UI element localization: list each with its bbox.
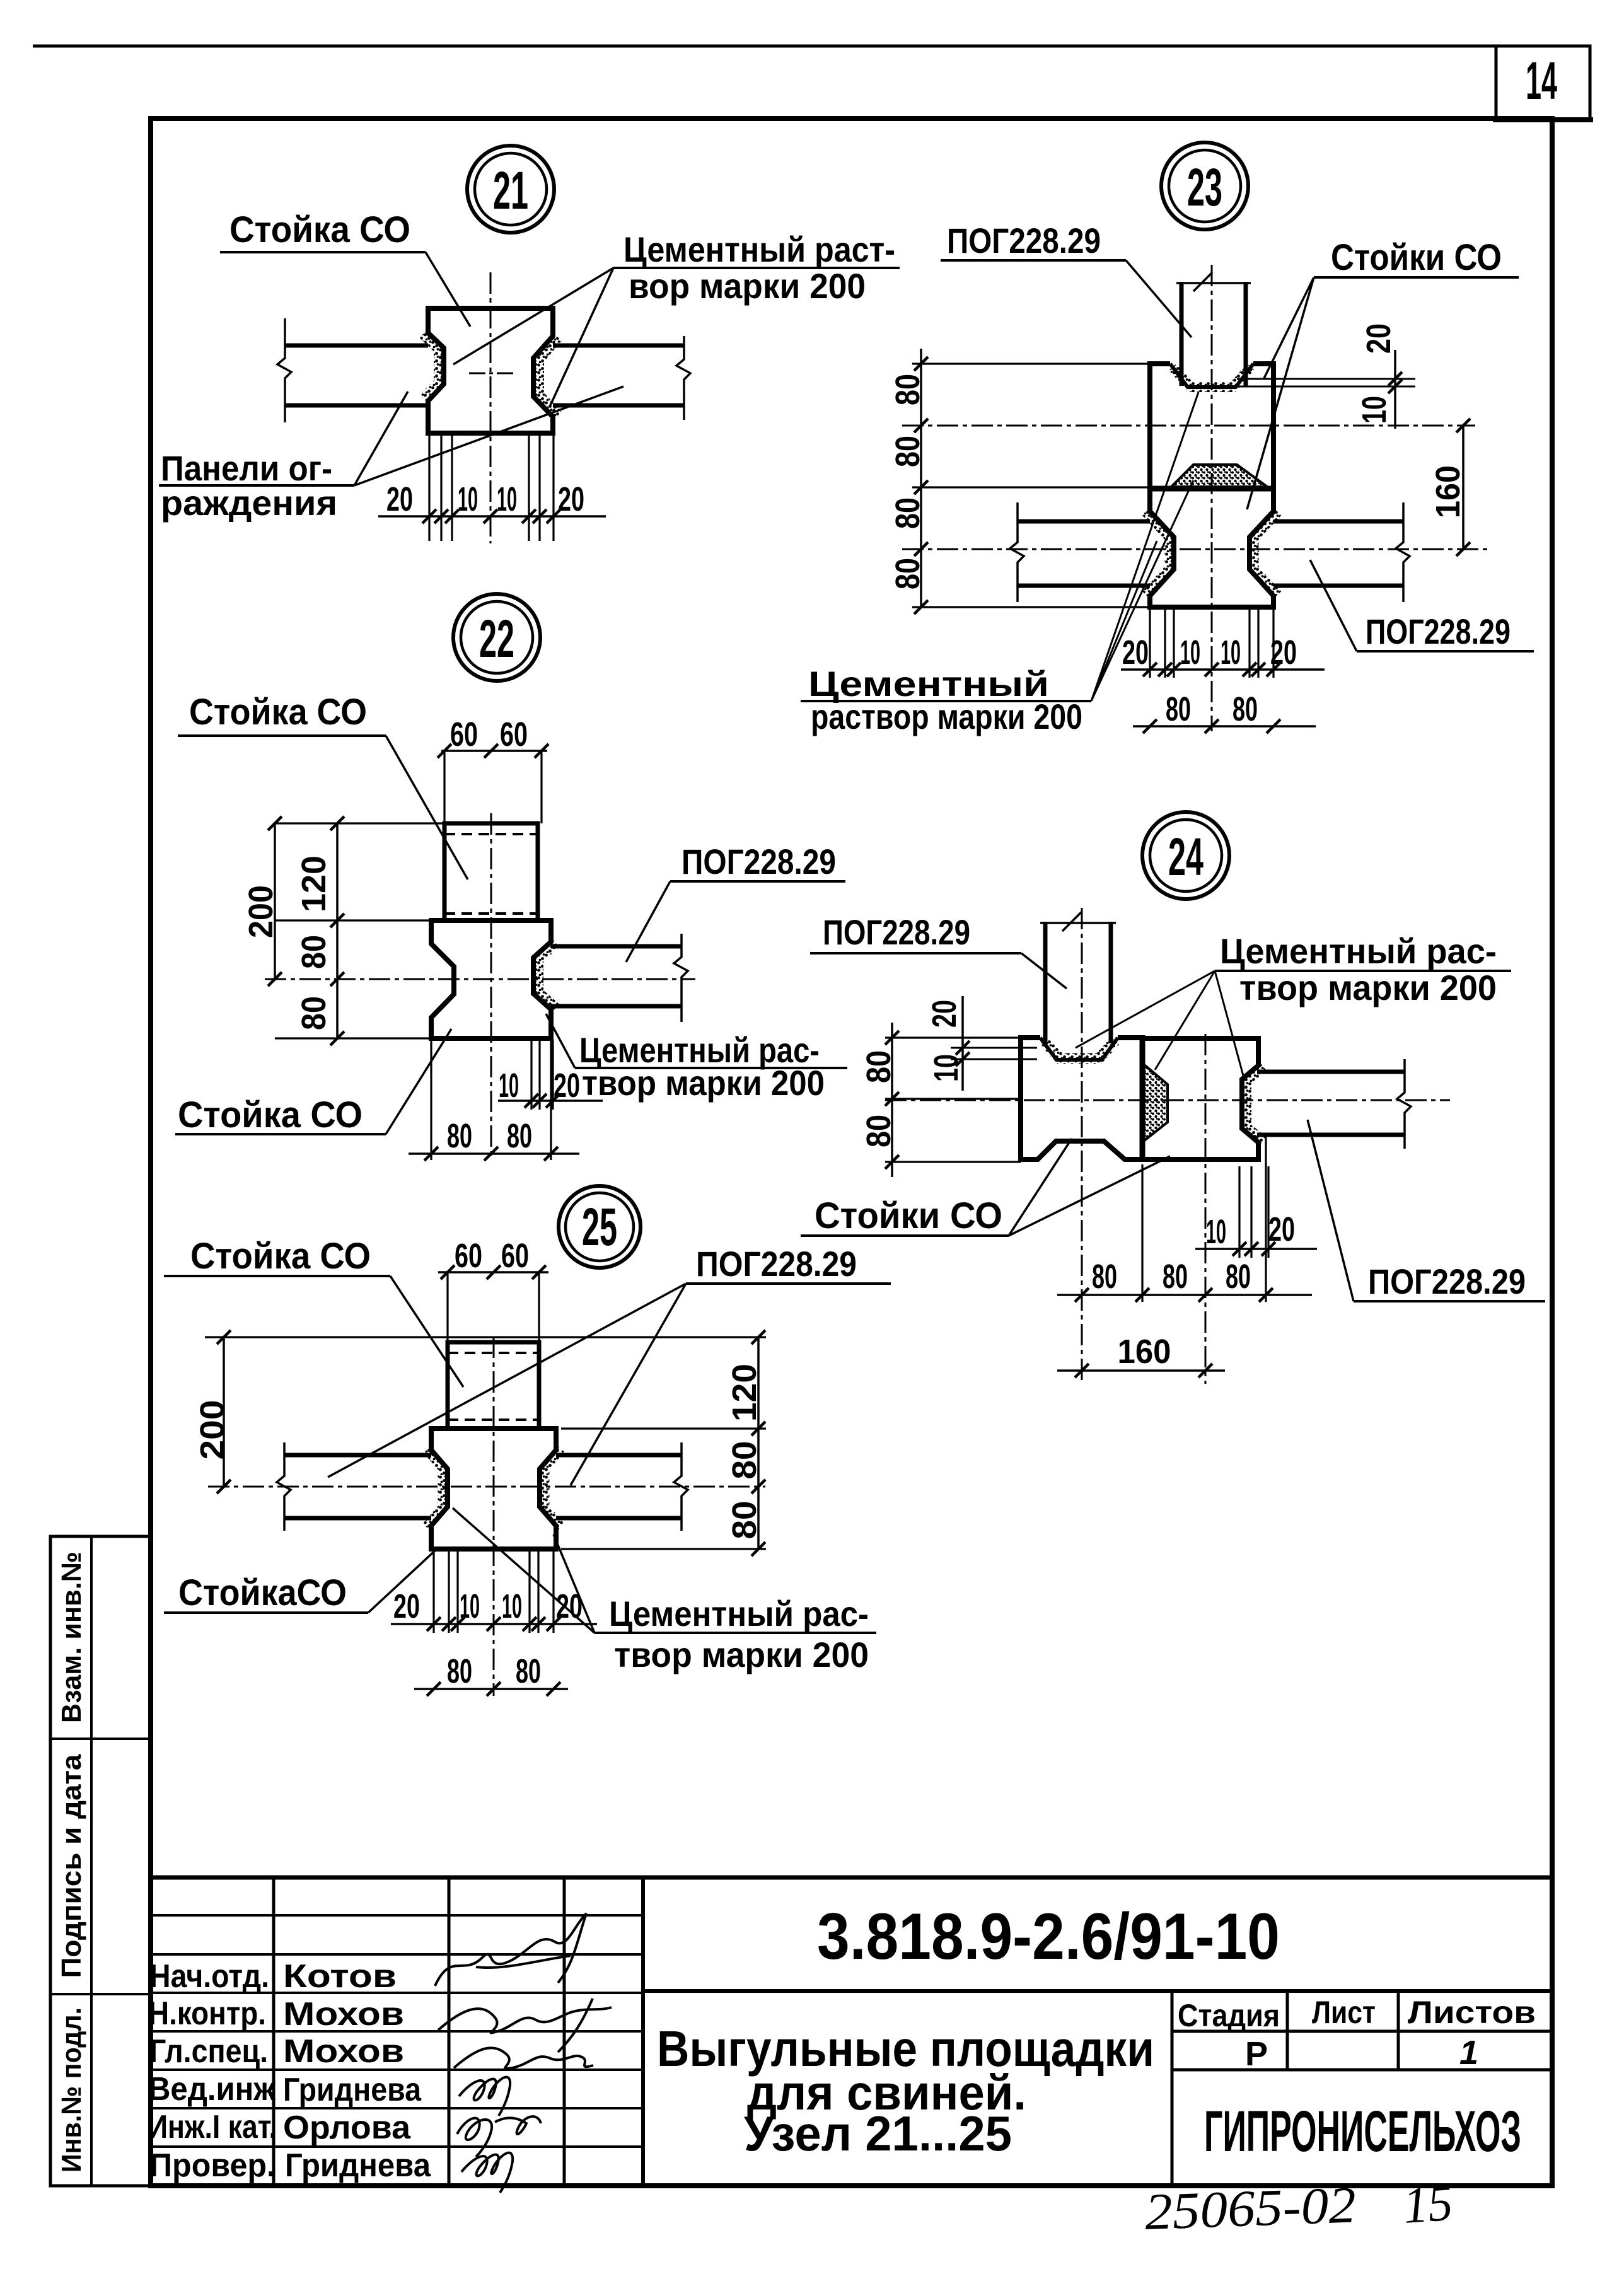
shared top extension line	[205, 1336, 766, 1338]
left dim 80 80	[885, 1038, 1021, 1162]
svg-text:раждения: раждения	[161, 483, 337, 523]
svg-text:Н.контр.: Н.контр.	[148, 1995, 266, 2032]
upper post (стойка)	[444, 823, 538, 919]
svg-text:200: 200	[194, 1400, 231, 1460]
mortar band left	[426, 1449, 443, 1527]
svg-text:160: 160	[1429, 465, 1467, 518]
signature Мохов 2	[454, 2048, 593, 2068]
fence panel right	[553, 344, 684, 348]
svg-text:Листов: Листов	[1408, 1995, 1536, 2030]
mortar band right (cement joint)	[539, 337, 558, 415]
break mark left panel	[1010, 502, 1024, 602]
svg-text:25: 25	[582, 1197, 617, 1256]
lower collar (стойка)	[1150, 489, 1273, 607]
svg-text:Нач.отд.: Нач.отд.	[149, 1958, 269, 1995]
svg-text:Инв.№ подл.: Инв.№ подл.	[56, 2007, 87, 2173]
SECTION:D23	[801, 142, 1534, 736]
svg-text:10: 10	[460, 1587, 480, 1625]
bottom dims 20 10 10 20	[434, 1551, 554, 1633]
svg-text:вор марки 200: вор марки 200	[629, 266, 866, 306]
svg-text:10: 10	[1221, 634, 1241, 671]
svg-text:80: 80	[1226, 1258, 1251, 1296]
main drawing frame	[151, 119, 1552, 2186]
bottom dims 80 80 80	[1142, 1137, 1266, 1302]
svg-text:24: 24	[1168, 827, 1203, 886]
right cells	[1172, 1991, 1398, 2186]
centerline horizontal	[208, 1486, 765, 1488]
break mark right panel	[676, 336, 690, 420]
detail bubble 25	[559, 1186, 641, 1268]
centerline horizontal lower	[902, 548, 1489, 550]
svg-text:120: 120	[726, 1364, 763, 1422]
svg-text:10: 10	[502, 1587, 522, 1625]
svg-text:3.818.9-2.6/91-10: 3.818.9-2.6/91-10	[817, 1900, 1280, 1973]
SECTION:D24	[801, 812, 1545, 1384]
mortar band lower-right	[1254, 512, 1278, 595]
mortar band right notch	[1246, 1067, 1263, 1141]
dimension ticks	[422, 509, 560, 523]
svg-text:60: 60	[500, 716, 528, 753]
bottom dim 160	[1057, 1369, 1225, 1372]
svg-text:Цементный раст-: Цементный раст-	[623, 229, 895, 269]
SECTION:D21	[159, 146, 900, 543]
fence panel left	[1018, 519, 1150, 524]
svg-text:80: 80	[726, 1441, 763, 1480]
thick joint line	[1147, 486, 1276, 492]
collar outline	[431, 920, 551, 1038]
svg-text:20: 20	[1270, 634, 1297, 671]
dimension line	[378, 515, 606, 518]
dim 10 20 below collar	[531, 1040, 553, 1110]
centerline vertical	[490, 813, 492, 1160]
svg-text:ПОГ228.29: ПОГ228.29	[681, 842, 836, 881]
svg-text:Панели ог-: Панели ог-	[161, 448, 332, 488]
mortar cradle band under post	[1043, 1041, 1115, 1059]
svg-text:Вед.инж: Вед.инж	[148, 2071, 276, 2108]
right dim chain 120 80 80	[561, 1429, 766, 1549]
detail bubble 22	[453, 594, 540, 681]
svg-text:раствор марки 200: раствор марки 200	[811, 697, 1082, 736]
signature Котов	[435, 1913, 586, 1986]
svg-text:80: 80	[860, 1115, 898, 1147]
svg-text:20: 20	[554, 1067, 580, 1105]
svg-text:20: 20	[925, 1000, 963, 1028]
svg-text:80: 80	[516, 1652, 541, 1690]
svg-text:80: 80	[507, 1117, 532, 1155]
centerline vertical post	[1081, 908, 1083, 1384]
svg-text:10: 10	[497, 480, 517, 518]
centerline horizontal	[265, 978, 695, 980]
svg-text:160: 160	[1118, 1333, 1171, 1371]
svg-text:Узел 21...25: Узел 21...25	[744, 2106, 1012, 2161]
svg-text:Лист: Лист	[1312, 1995, 1376, 2030]
svg-text:Стойка СО: Стойка СО	[189, 692, 367, 733]
thick joint line	[1140, 1035, 1145, 1162]
svg-text:20: 20	[393, 1587, 420, 1625]
svg-text:80: 80	[295, 996, 333, 1030]
SECTION:D22	[175, 594, 847, 1161]
upper post ПОГ228.29	[1045, 922, 1111, 1043]
svg-text:80: 80	[860, 1050, 898, 1083]
svg-text:ПОГ228.29: ПОГ228.29	[823, 912, 970, 952]
svg-text:Котов: Котов	[283, 1958, 397, 1995]
svg-text:60: 60	[455, 1237, 482, 1275]
svg-text:10: 10	[1180, 634, 1200, 671]
break mark right panel	[1396, 502, 1410, 602]
column dividers left part	[274, 1877, 564, 2186]
left dim 200	[223, 1337, 225, 1487]
svg-text:1: 1	[1459, 2034, 1478, 2072]
svg-text:Стойки СО: Стойки СО	[1331, 237, 1502, 278]
fence panel right	[551, 944, 681, 949]
fence panel right	[1273, 519, 1403, 524]
svg-text:10: 10	[499, 1067, 519, 1105]
svg-text:Гриднева: Гриднева	[283, 2072, 422, 2108]
svg-text:Р: Р	[1245, 2035, 1268, 2073]
fence panel left	[285, 344, 428, 348]
svg-text:120: 120	[295, 856, 333, 912]
signature Гриднева 1	[459, 2077, 510, 2116]
svg-text:21: 21	[493, 161, 528, 220]
svg-text:Мохов: Мохов	[283, 2033, 404, 2070]
svg-text:20: 20	[1122, 634, 1149, 671]
svg-text:Цементный рас-: Цементный рас-	[609, 1594, 869, 1633]
bottom dims 20 10 10 20	[1150, 609, 1273, 678]
svg-text:20: 20	[386, 480, 413, 518]
centerline vertical	[1211, 265, 1213, 731]
svg-text:60: 60	[450, 716, 478, 753]
svg-text:80: 80	[889, 558, 927, 589]
mortar bed trapezoid	[1171, 465, 1267, 487]
centerline vertical right collar	[1205, 1034, 1207, 1384]
svg-text:20: 20	[1268, 1210, 1295, 1248]
dim 80 80 below	[431, 1040, 551, 1160]
signature Орлова	[457, 2116, 541, 2157]
top dim 60 60	[444, 751, 542, 823]
svg-text:80: 80	[889, 374, 927, 405]
svg-text:Взам. инв.№: Взам. инв.№	[56, 1552, 87, 1723]
svg-text:Гриднева: Гриднева	[285, 2147, 431, 2184]
detail bubble 24	[1142, 812, 1229, 899]
bottom dims 80 80	[1133, 725, 1316, 728]
svg-text:Стойка СО: Стойка СО	[229, 209, 410, 250]
title block top edge	[151, 1876, 1552, 1880]
svg-text:80: 80	[1166, 690, 1191, 728]
svg-text:СтойкаСО: СтойкаСО	[178, 1572, 347, 1613]
svg-text:Орлова: Орлова	[283, 2109, 411, 2146]
svg-text:20: 20	[558, 480, 584, 518]
svg-text:Мохов: Мохов	[283, 1996, 404, 2033]
top rule line	[33, 45, 1590, 48]
svg-text:10: 10	[1355, 396, 1393, 424]
left dim chain 120 80 80 and 200	[275, 823, 444, 1038]
mortar band lower-left	[1145, 512, 1169, 595]
mortar bed trapezoid	[1144, 1064, 1168, 1141]
left dim chain 80x4	[912, 364, 1150, 607]
break mark right panel	[1397, 1059, 1411, 1149]
detail bubble 21	[467, 146, 554, 233]
fence panel right	[1257, 1070, 1405, 1074]
svg-text:80: 80	[889, 436, 927, 467]
fence panel left	[284, 1453, 431, 1458]
svg-text:80: 80	[726, 1501, 763, 1540]
centerline horizontal upper	[902, 425, 1475, 427]
bottom dims 80 80	[414, 1688, 568, 1690]
break mark left panel	[277, 1442, 291, 1531]
svg-text:ПОГ228.29: ПОГ228.29	[947, 221, 1101, 260]
svg-text:Стойки СО: Стойки СО	[815, 1195, 1002, 1236]
left rows	[151, 1915, 643, 2147]
SECTION:TITLEBLOCK	[50, 1536, 1552, 2241]
detail bubble 23	[1161, 142, 1248, 229]
svg-text:15: 15	[1401, 2174, 1454, 2234]
doc number cell bottom	[643, 1989, 1552, 1993]
svg-text:23: 23	[1187, 158, 1222, 217]
svg-text:Гл.спец.: Гл.спец.	[149, 2033, 268, 2070]
svg-text:80: 80	[447, 1117, 472, 1155]
upper collar (стойка)	[1150, 364, 1273, 487]
svg-text:60: 60	[501, 1237, 529, 1275]
svg-text:Стадия: Стадия	[1178, 1998, 1280, 2033]
centerline horizontal	[885, 1099, 1450, 1101]
svg-text:200: 200	[242, 885, 280, 938]
centerline vertical	[490, 272, 492, 543]
svg-text:80: 80	[889, 497, 927, 529]
SECTION:D25	[164, 1186, 891, 1696]
svg-text:твор марки 200: твор марки 200	[614, 1635, 869, 1674]
svg-text:Стойка СО: Стойка СО	[178, 1094, 362, 1135]
signature Мохов 1	[438, 2007, 612, 2033]
mortar band right	[538, 943, 556, 1008]
svg-text:25065-02: 25065-02	[1144, 2176, 1357, 2241]
svg-text:твор марки 200: твор марки 200	[1239, 968, 1497, 1007]
upper post ПОГ228.29	[1181, 282, 1246, 386]
svg-text:80: 80	[295, 935, 333, 969]
right small dims 20 10	[1237, 379, 1415, 386]
svg-text:10: 10	[927, 1054, 965, 1082]
svg-text:14: 14	[1526, 51, 1557, 110]
svg-text:10: 10	[1206, 1213, 1226, 1251]
break mark right panel	[674, 1442, 688, 1531]
svg-text:Стойка СО: Стойка СО	[190, 1236, 371, 1277]
right collar (стойка)	[1142, 1038, 1258, 1159]
svg-text:ГИПРОНИСЕЛЬХОЗ: ГИПРОНИСЕЛЬХОЗ	[1204, 2099, 1521, 2164]
svg-text:ПОГ228.29: ПОГ228.29	[696, 1244, 857, 1284]
svg-text:80: 80	[447, 1652, 472, 1690]
post collar outline (stойка CO cross-section)	[428, 308, 553, 433]
top dim 60 60	[448, 1272, 539, 1342]
svg-text:20: 20	[1360, 323, 1398, 354]
mortar band right	[545, 1449, 561, 1527]
dimension extension lines	[429, 435, 554, 541]
side bar boxes	[50, 1536, 151, 2186]
mortar band left (cement joint)	[423, 334, 439, 398]
mortar cradle band under post	[1173, 367, 1251, 387]
svg-text:Провер.: Провер.	[149, 2147, 275, 2184]
signature Гриднева 2	[461, 2153, 513, 2193]
right dim 160	[1462, 426, 1464, 549]
svg-text:80: 80	[1163, 1258, 1188, 1296]
centerline horizontal tick	[469, 373, 514, 374]
fence panel right	[556, 1453, 681, 1458]
svg-text:Цементный рас-: Цементный рас-	[1220, 931, 1497, 971]
upper post (стойка)	[448, 1342, 539, 1429]
collar outline	[431, 1429, 556, 1549]
bottom dims 10 20	[1239, 1166, 1268, 1258]
top-left dims 20 10	[951, 1048, 1037, 1059]
svg-text:80: 80	[1092, 1258, 1117, 1296]
sheet number box	[1496, 46, 1590, 120]
svg-text:Инж.I кат.: Инж.I кат.	[148, 2109, 277, 2145]
svg-text:Подпись и дата: Подпись и дата	[56, 1754, 87, 1978]
left collar (стойка)	[1021, 1038, 1142, 1159]
break mark left panel	[277, 318, 291, 422]
svg-text:10: 10	[458, 480, 478, 518]
svg-text:ПОГ228.29: ПОГ228.29	[1366, 612, 1511, 651]
centerline vertical	[493, 1337, 495, 1696]
main divider	[641, 1877, 645, 2186]
break mark right panel	[674, 934, 688, 1022]
svg-text:22: 22	[479, 609, 514, 668]
svg-text:ПОГ228.29: ПОГ228.29	[1368, 1262, 1526, 1301]
svg-text:80: 80	[1232, 690, 1258, 728]
